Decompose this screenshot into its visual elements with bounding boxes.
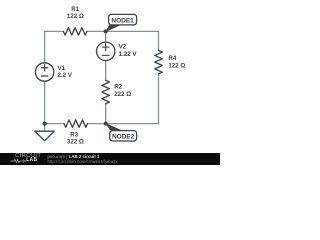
resistor R3 bbox=[64, 120, 87, 127]
ground bbox=[35, 131, 55, 141]
svg-text:1.22 V: 1.22 V bbox=[119, 51, 138, 58]
node A NODE1 flag bbox=[105, 14, 137, 32]
wire V1 bottom lead bbox=[44, 81, 46, 123]
voltage source V1 bbox=[35, 63, 53, 81]
svg-text:R2: R2 bbox=[114, 84, 122, 91]
footer caption line 2 bbox=[48, 160, 118, 164]
svg-text:222 Ω: 222 Ω bbox=[114, 91, 131, 98]
svg-text:NODE1: NODE1 bbox=[111, 18, 134, 25]
svg-text:322 Ω: 322 Ω bbox=[67, 139, 84, 146]
svg-text:V1: V1 bbox=[58, 65, 66, 72]
svg-text:R4: R4 bbox=[168, 55, 176, 62]
resistor R2 bbox=[102, 80, 109, 103]
svg-text:NODE2: NODE2 bbox=[112, 134, 135, 141]
wire R1 to NODE1 bbox=[87, 30, 106, 32]
svg-text:R3: R3 bbox=[70, 131, 78, 138]
node junction dot NODE2 bbox=[104, 122, 108, 126]
wire V2 top lead bbox=[105, 31, 107, 42]
node junction dot NODE1 bbox=[104, 29, 108, 33]
svg-text:R1: R1 bbox=[71, 6, 79, 13]
wire NODE1 to top-right corner down to R4 bbox=[106, 31, 159, 50]
voltage source V2 bbox=[97, 42, 115, 60]
resistor R1 bbox=[63, 28, 86, 35]
wire top-left horizontal bbox=[45, 30, 64, 32]
footer caption line 1 bbox=[48, 155, 100, 159]
CircuitLab logo bbox=[15, 154, 41, 160]
wire R4 bottom to bottom-right corner to NODE2 bbox=[106, 74, 159, 124]
wire left branch V1 top lead bbox=[44, 31, 46, 62]
resistor R4 bbox=[155, 50, 162, 73]
svg-text:122 Ω: 122 Ω bbox=[168, 63, 185, 70]
footer bar bbox=[0, 153, 220, 165]
node B NODE2 flag bbox=[105, 123, 137, 141]
wire bottom-left to R3 bbox=[45, 123, 64, 125]
svg-text:2.2 V: 2.2 V bbox=[58, 72, 73, 79]
wire V2 to R2 bbox=[105, 61, 107, 81]
svg-text:V2: V2 bbox=[119, 43, 127, 50]
svg-text:122 Ω: 122 Ω bbox=[67, 13, 84, 20]
junction dot ground bbox=[43, 122, 47, 126]
wire R2 to NODE2 bbox=[105, 104, 107, 124]
wire R3 to NODE2 bbox=[88, 123, 106, 125]
ground stub wire bbox=[44, 124, 46, 132]
